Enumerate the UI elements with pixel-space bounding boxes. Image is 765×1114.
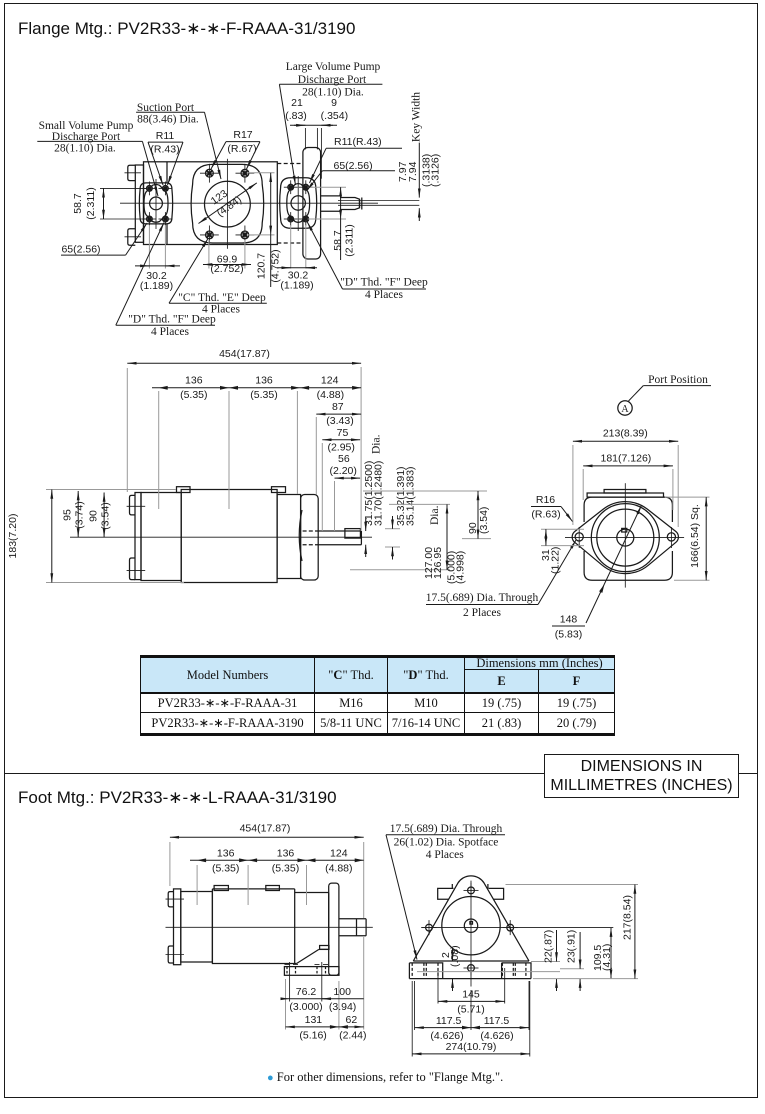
svg-text:181(7.126): 181(7.126) <box>601 453 652 465</box>
svg-text:(.83): (.83) <box>285 110 307 122</box>
svg-text:21: 21 <box>291 97 303 109</box>
svg-text:87: 87 <box>332 401 344 413</box>
svg-text:(2.311): (2.311) <box>85 187 97 220</box>
svg-text:65(2.56): 65(2.56) <box>334 160 373 172</box>
svg-text:(5.35): (5.35) <box>250 389 277 401</box>
svg-text:(2.311): (2.311) <box>344 224 356 257</box>
svg-text:31.70(1.2480): 31.70(1.2480) <box>373 461 385 526</box>
svg-text:(3.43): (3.43) <box>326 415 353 427</box>
svg-text:100: 100 <box>333 986 351 998</box>
svg-text:136: 136 <box>185 375 203 387</box>
svg-text:(R.67): (R.67) <box>227 143 256 155</box>
svg-text:124: 124 <box>330 848 348 860</box>
svg-text:75: 75 <box>337 427 349 439</box>
svg-text:62: 62 <box>346 1014 358 1026</box>
svg-text:(R.43): (R.43) <box>150 144 179 156</box>
svg-text:(5.35): (5.35) <box>272 863 299 875</box>
svg-text:90: 90 <box>88 510 100 522</box>
svg-text:2 Places: 2 Places <box>463 607 502 619</box>
svg-text:(5.35): (5.35) <box>212 863 239 875</box>
svg-text:(.3126): (.3126) <box>430 154 442 187</box>
svg-text:(2.20): (2.20) <box>329 465 356 477</box>
svg-text:23(.91): 23(.91) <box>566 930 578 963</box>
svg-text:120.7: 120.7 <box>256 253 268 279</box>
svg-text:(R.63): (R.63) <box>531 509 560 521</box>
svg-text:126.95: 126.95 <box>432 547 444 579</box>
svg-text:(3.74): (3.74) <box>74 501 86 528</box>
svg-text:(3.94): (3.94) <box>329 1001 356 1013</box>
svg-text:Dia.: Dia. <box>429 505 441 525</box>
svg-text:213(8.39): 213(8.39) <box>603 428 648 440</box>
svg-text:136: 136 <box>217 848 235 860</box>
svg-text:4 Places: 4 Places <box>151 326 190 338</box>
svg-text:(2.44): (2.44) <box>339 1030 366 1042</box>
svg-text:131: 131 <box>305 1014 323 1026</box>
svg-text:28(1.10) Dia.: 28(1.10) Dia. <box>302 87 364 99</box>
svg-text:17.5(.689) Dia. Through: 17.5(.689) Dia. Through <box>390 823 503 835</box>
svg-text:4 Places: 4 Places <box>365 289 404 301</box>
svg-text:136: 136 <box>255 375 273 387</box>
svg-text:58.7: 58.7 <box>332 230 344 251</box>
svg-text:(5.35): (5.35) <box>180 389 207 401</box>
svg-text:454(17.87): 454(17.87) <box>219 348 270 360</box>
svg-text:(3.54): (3.54) <box>100 502 112 529</box>
svg-text:124: 124 <box>321 375 339 387</box>
svg-text:Dia.: Dia. <box>371 434 383 454</box>
svg-text:183(7.20): 183(7.20) <box>7 514 19 559</box>
svg-text:35.14(1.383): 35.14(1.383) <box>404 466 416 526</box>
svg-text:454(17.87): 454(17.87) <box>240 823 291 835</box>
svg-text:117.5: 117.5 <box>484 1015 510 1027</box>
svg-text:274(10.79): 274(10.79) <box>446 1041 497 1053</box>
svg-text:136: 136 <box>277 848 295 860</box>
svg-text:7.94: 7.94 <box>407 161 419 182</box>
svg-text:65(2.56): 65(2.56) <box>61 244 100 256</box>
svg-text:"D" Thd. "F" Deep: "D" Thd. "F" Deep <box>340 277 428 289</box>
svg-text:(4.88): (4.88) <box>325 863 352 875</box>
svg-text:76.2: 76.2 <box>296 986 317 998</box>
svg-text:A: A <box>621 404 629 415</box>
svg-text:88(3.46) Dia.: 88(3.46) Dia. <box>137 114 199 126</box>
svg-text:(4.88): (4.88) <box>317 389 344 401</box>
svg-text:166(6.54) Sq.: 166(6.54) Sq. <box>689 504 701 568</box>
svg-text:(3.54): (3.54) <box>478 507 490 534</box>
svg-text:R11: R11 <box>156 130 175 142</box>
svg-text:"D" Thd. "F" Deep: "D" Thd. "F" Deep <box>128 314 216 326</box>
svg-text:R11(R.43): R11(R.43) <box>334 136 382 148</box>
svg-text:(2.95): (2.95) <box>327 442 354 454</box>
svg-text:28(1.10) Dia.: 28(1.10) Dia. <box>54 143 116 155</box>
svg-text:(4.31): (4.31) <box>601 944 613 971</box>
svg-text:Port Position: Port Position <box>648 374 708 386</box>
svg-text:(3.000): (3.000) <box>289 1001 322 1013</box>
svg-text:(.08): (.08) <box>449 945 461 967</box>
svg-text:117.5: 117.5 <box>436 1015 462 1027</box>
svg-text:"C" Thd. "E" Deep: "C" Thd. "E" Deep <box>178 292 266 304</box>
svg-text:(4.998): (4.998) <box>454 551 466 584</box>
svg-text:148: 148 <box>560 614 578 626</box>
svg-text:9: 9 <box>331 97 337 109</box>
svg-text:58.7: 58.7 <box>72 193 84 214</box>
svg-text:(.354): (.354) <box>321 110 348 122</box>
svg-text:(1.189): (1.189) <box>140 280 173 292</box>
svg-text:Large Volume Pump: Large Volume Pump <box>286 61 381 73</box>
svg-text:(1.189): (1.189) <box>280 280 313 292</box>
svg-text:(1.22): (1.22) <box>550 547 562 574</box>
svg-text:4 Places: 4 Places <box>426 849 465 861</box>
svg-text:(5.83): (5.83) <box>555 629 582 641</box>
svg-text:R16: R16 <box>536 494 555 506</box>
svg-text:95: 95 <box>62 509 74 521</box>
svg-text:17.5(.689) Dia. Through: 17.5(.689) Dia. Through <box>426 592 539 604</box>
svg-text:22(.87): 22(.87) <box>543 930 555 963</box>
svg-text:(4.752): (4.752) <box>270 249 282 282</box>
svg-text:56: 56 <box>338 453 350 465</box>
svg-text:(5.16): (5.16) <box>299 1030 326 1042</box>
svg-text:R17: R17 <box>233 129 252 141</box>
svg-text:217(8.54): 217(8.54) <box>622 895 634 940</box>
svg-text:Key Width: Key Width <box>411 92 423 142</box>
svg-text:26(1.02) Dia. Spotface: 26(1.02) Dia. Spotface <box>394 837 499 849</box>
svg-text:(2.752): (2.752) <box>210 263 243 275</box>
